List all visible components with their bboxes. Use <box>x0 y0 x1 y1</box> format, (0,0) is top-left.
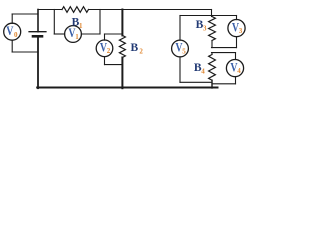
svg-text:V: V <box>6 25 14 38</box>
wire B3 bottom vertical <box>211 41 213 48</box>
wire V2 bottom horizontal <box>105 64 123 66</box>
wire V1 left horizontal <box>54 33 64 35</box>
label V3 <box>232 21 243 35</box>
wire V5 top vertical <box>179 16 181 41</box>
voltmeter V4 circle <box>226 60 243 77</box>
resistor B3 <box>209 17 216 41</box>
svg-text:4: 4 <box>201 67 205 75</box>
svg-text:1: 1 <box>75 33 79 41</box>
wire right corner vertical <box>211 10 213 17</box>
wire B4 bottom vertical <box>211 80 213 88</box>
wire battery top vertical <box>37 10 39 32</box>
wire top rail right <box>89 9 212 11</box>
battery long plate <box>29 31 46 33</box>
voltmeter V0 circle <box>4 23 21 40</box>
wire V3 bottom vertical <box>236 37 238 48</box>
svg-text:3: 3 <box>203 24 207 32</box>
label B3 <box>196 19 207 32</box>
svg-text:4: 4 <box>237 67 241 75</box>
label B2 <box>131 42 144 56</box>
voltmeter V5 circle <box>172 40 189 57</box>
voltmeter V3 circle <box>228 20 245 37</box>
svg-text:5: 5 <box>182 47 186 55</box>
wire V0 top horizontal <box>12 13 38 15</box>
wire V1 right vertical <box>99 10 101 35</box>
resistor B2 <box>119 35 125 57</box>
wire V0 top vertical <box>11 14 13 23</box>
wire B2 rail upper <box>121 10 123 36</box>
battery short plate <box>33 35 42 38</box>
svg-text:3: 3 <box>239 27 243 35</box>
svg-text:B: B <box>131 42 139 54</box>
wire B2 rail lower <box>121 58 123 89</box>
wire V5 bottom vertical <box>179 57 181 82</box>
wire V4 bottom vertical <box>235 77 237 84</box>
wire bottom rail <box>37 87 217 89</box>
wire V4 top vertical <box>235 53 237 60</box>
voltmeter V2 circle <box>96 40 113 57</box>
svg-text:2: 2 <box>139 48 143 56</box>
wire V2 top vertical <box>104 34 106 40</box>
label B4 <box>194 62 205 75</box>
wire V1 right horizontal <box>81 33 100 35</box>
wire V2 bottom vertical <box>104 57 106 65</box>
label B1 <box>72 17 83 30</box>
wire top rail left <box>38 9 62 11</box>
wire inner top rail <box>180 15 237 17</box>
label V0 <box>6 25 18 39</box>
wire junction bar upper <box>212 47 237 49</box>
svg-text:0: 0 <box>14 31 18 39</box>
resistor B4 <box>209 55 216 81</box>
resistor B1 <box>62 7 89 13</box>
wire junction bar lower <box>212 52 236 54</box>
wire inner bottom rail <box>180 81 212 83</box>
svg-text:2: 2 <box>107 47 111 55</box>
wire battery bottom vertical <box>37 38 39 89</box>
wire V0 bottom horizontal <box>12 51 38 53</box>
wire B4 top vertical <box>211 53 213 55</box>
label V5 <box>175 42 186 56</box>
label V4 <box>230 61 241 75</box>
wire V2 top horizontal <box>105 33 123 35</box>
label V1 <box>68 27 79 41</box>
label V2 <box>100 41 111 55</box>
wire bottom step <box>212 83 236 85</box>
wire V1 left vertical <box>53 10 55 35</box>
svg-text:1: 1 <box>79 22 83 30</box>
wire V0 bottom vertical <box>11 40 13 52</box>
wire V3 top vertical <box>236 16 238 20</box>
voltmeter V1 circle <box>65 26 82 43</box>
